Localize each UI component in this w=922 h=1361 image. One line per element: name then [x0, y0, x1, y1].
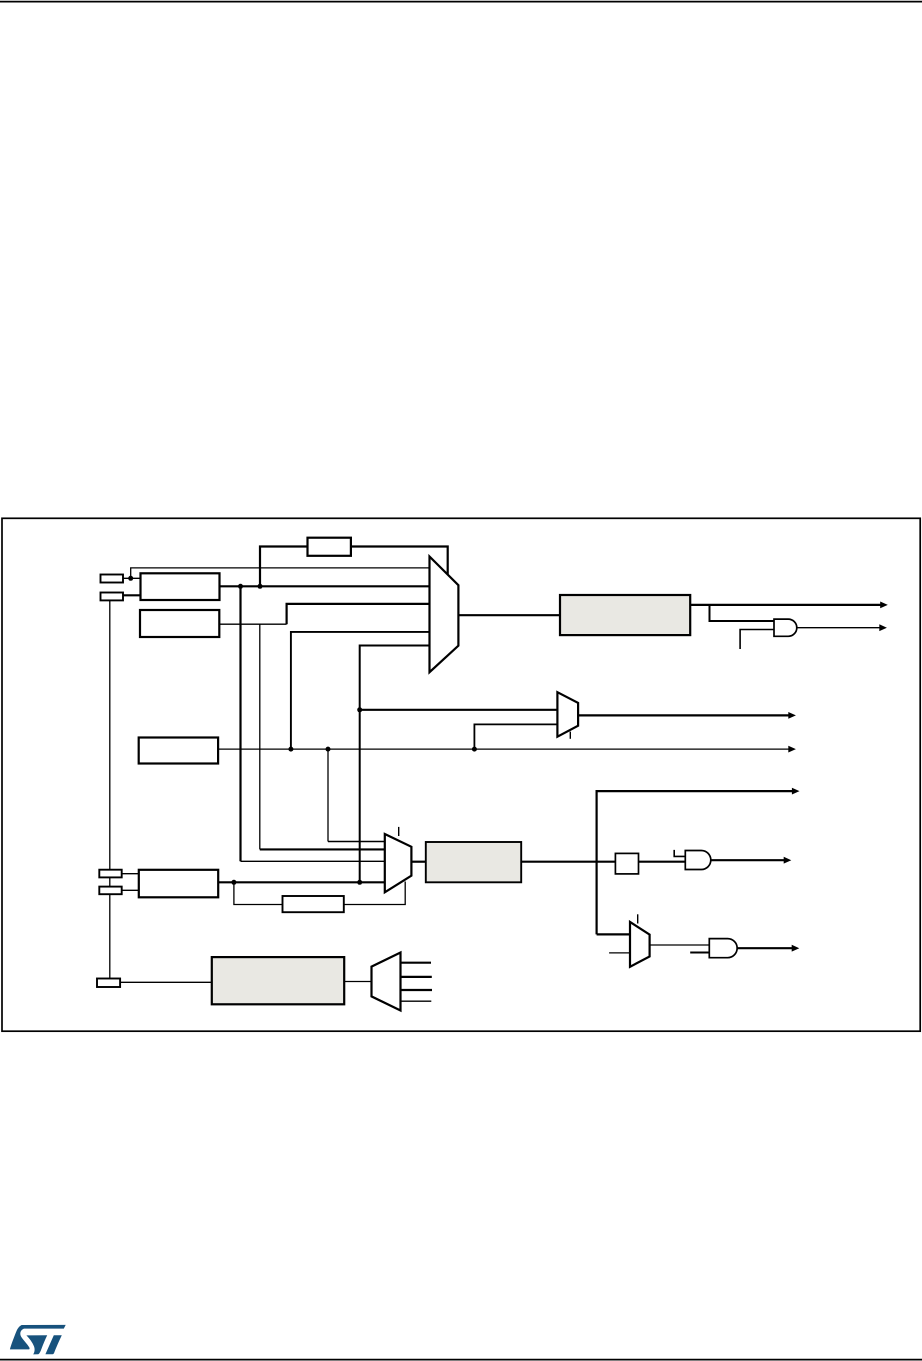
wire: CPU clock arrow	[797, 627, 881, 629]
AND gate U1 (CPU clock)	[774, 619, 797, 636]
junction: LSI tap	[326, 747, 331, 752]
wire: CPU AND gate enable hook	[740, 630, 774, 650]
junction: HSE feedback node	[258, 584, 263, 589]
select stub: AWU mux	[637, 914, 639, 923]
wire: LSE trunk up to master mux input 5	[360, 646, 430, 883]
wire: OSCOUT pin to HSE osc	[123, 594, 141, 596]
junction: HSE tap	[238, 584, 243, 589]
wire: LSE feedback (left drop to divider)	[234, 882, 283, 904]
pin: detector input	[97, 979, 120, 988]
select stub: BEEP mux	[569, 732, 571, 739]
wire: OSCOUT pin to clock detector (long left vertical)	[109, 600, 111, 978]
wire: AWU clock arrow	[737, 947, 793, 949]
wire: LSI tap down to switch mux input 1	[327, 749, 329, 841]
BEEP mux (small trapezoid)	[557, 692, 578, 737]
master clock mux (trapezoid)	[430, 557, 459, 673]
wire: pin to clock detector	[120, 981, 212, 983]
LSI RC oscillator box	[139, 738, 218, 764]
arrowhead: peripheral clock	[792, 788, 800, 795]
arrowhead: CPU clock	[879, 624, 887, 631]
pin OSC32IN	[99, 870, 121, 878]
clock detector box (gray)	[212, 957, 344, 1004]
HSE oscillator box	[141, 573, 220, 600]
junction: OSCIN node	[128, 576, 133, 581]
arrowhead: gated system clock	[784, 857, 792, 864]
wire: HSI tap down to switch mux input 2	[259, 624, 261, 849]
wire: buffer output 2	[401, 976, 432, 978]
wire: OSC32IN pin to LSE osc	[122, 873, 139, 875]
divider box (HSE feedback)	[308, 538, 351, 556]
wire: OSCIN pin to HSE osc	[123, 577, 141, 579]
clock divider box (gray)	[560, 595, 690, 635]
arrowhead: LSI to IWDG	[788, 746, 796, 753]
pin OSC32OUT	[99, 887, 121, 895]
wire: gated system clock arrow	[711, 859, 786, 861]
AWU mux (small trapezoid)	[630, 922, 650, 967]
wire: CSS box to AND gate	[639, 861, 686, 863]
wire: LSE output to switch mux bottom input	[218, 881, 385, 883]
wire: AND2 enable hook	[674, 850, 685, 857]
wire: HSE tap down to switch mux input 3	[239, 586, 241, 861]
junction: LSI to mux4	[288, 747, 293, 752]
AND gate U3 (AWU clock gate)	[709, 939, 737, 958]
wire: system clock riser to peripherals arrow	[597, 791, 794, 934]
CSS box (small square)	[615, 853, 638, 874]
LSE oscillator box	[139, 870, 218, 898]
wire: HSI up to master mux input 3	[287, 604, 430, 624]
junction: trunk-BEEP node	[357, 707, 362, 712]
system divider box (gray)	[426, 842, 521, 882]
arrowhead: AWU clock	[792, 945, 800, 952]
junction: LSI to BEEP mux	[472, 747, 477, 752]
wire: OSCIN bypass to master mux input 1	[131, 568, 430, 578]
wire: riser to AWU mux input 1	[597, 933, 630, 935]
wire: HSE output bus to master mux input 2	[220, 585, 430, 587]
clock distribution buffer (reverse trapezoid)	[372, 953, 401, 1011]
wire: LSI up to master mux input 4	[291, 632, 430, 749]
wire: HSI output	[219, 623, 286, 625]
clock switch mux (trapezoid)	[385, 834, 412, 892]
select stub: switch mux	[398, 827, 400, 836]
figure frame	[2, 518, 920, 1031]
wire: HSE feedback left (dot to divider box)	[260, 547, 308, 588]
wire: AWU mux output to AND3	[650, 944, 710, 946]
ST logo	[10, 1325, 66, 1355]
wire: LSI up to BEEP mux input 2	[474, 724, 557, 749]
AND gate U2 (system clock gate)	[685, 851, 711, 870]
wire: LSE trunk to BEEP mux input 1	[360, 709, 558, 711]
wire: detector to distribution buffer	[344, 981, 371, 983]
arrowhead: master clock	[880, 602, 888, 609]
wire: AND3 enable stub	[690, 952, 709, 954]
junction: LSE feedback node	[231, 880, 236, 885]
wire: master clock output arrow	[690, 604, 882, 606]
footer rule	[0, 1359, 922, 1361]
wire: BEEP clock arrow	[578, 714, 790, 716]
wire: LSE feedback (divider to mux slant)	[344, 882, 405, 905]
wire: switch mux output	[411, 861, 425, 863]
wire: AWU mux input 2 stub	[609, 952, 630, 954]
wire: system clock line to CSS box	[521, 861, 615, 863]
wire: LSI output line to IWDG arrow	[218, 748, 790, 750]
wire: buffer output 3	[401, 989, 433, 991]
header rule	[0, 1, 922, 3]
wire: branch down to CPU AND gate	[710, 605, 775, 621]
arrowhead: BEEP clock	[788, 712, 796, 719]
LSE divider box	[283, 896, 344, 912]
pin OSCOUT	[101, 593, 124, 601]
wire: buffer output 4	[401, 1000, 432, 1002]
wire: master mux output to divider	[458, 614, 560, 616]
pin OSCIN	[101, 575, 124, 583]
wire: HSE feedback right (divider box to mux top slant)	[351, 547, 448, 575]
wire: OSC32OUT pin to LSE osc	[122, 889, 139, 891]
wire: buffer output 1	[401, 962, 432, 964]
junction: LSE trunk node	[357, 880, 362, 885]
HSI RC oscillator box	[140, 610, 219, 637]
